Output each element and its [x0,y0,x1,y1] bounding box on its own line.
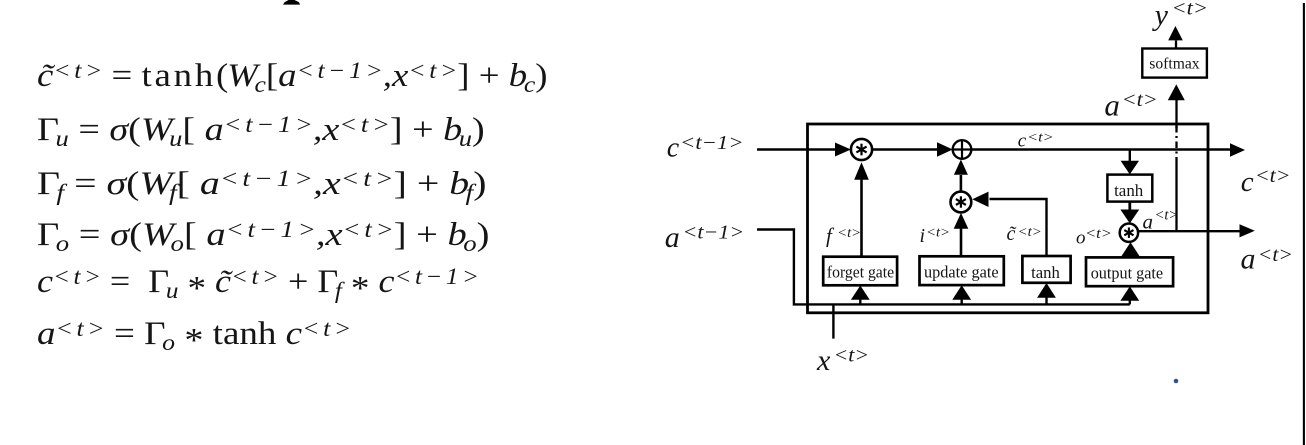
arrowhead c-out [1230,143,1245,156]
arrow softmax to y [1175,41,1177,49]
arrowhead into tanh upper [1121,161,1139,175]
softmax box [1142,49,1207,78]
wire vertical dash-dot crossing [1175,126,1177,164]
tanh box (bottom) [1022,256,1070,283]
wire a-out [1138,230,1239,232]
node multiply1 [851,139,872,160]
arrowhead up to softmax [1168,84,1185,100]
wire ctilde branch (tanh bottom up and left) [990,199,1047,256]
equation line 5 [37,265,479,299]
wire vertical to softmax (solid upper) [1175,100,1177,128]
arrow tanh to multiply3 [1128,202,1131,211]
equation line 6 [37,317,351,351]
arrow f-gate to multiply1 [860,179,863,257]
equation line 4 [37,219,489,252]
wire multiply1 to plus [872,148,938,150]
feed arrow into tanh bottom [1045,297,1047,304]
tanh box (upper) [1107,175,1152,202]
equation line 2 [37,114,485,147]
feed arrow into forget gate [859,299,861,304]
arrowhead into plus [937,142,953,156]
wire c-in [757,148,837,150]
arrow o-gate to multiply3 [1121,242,1140,257]
feed arrow into update gate [961,299,963,304]
node multiply3 [1120,224,1138,242]
equation line 1 [37,60,547,93]
wire branch down to tanh [1129,150,1131,162]
wire vertical to softmax (solid lower) [1175,164,1177,232]
forget gate box [823,257,897,286]
arrowhead c-in [835,143,851,157]
wire c-line [971,148,1231,150]
feed arrow into output gate [1129,300,1131,304]
node blue dot [1174,379,1179,384]
wire x-in [832,304,834,338]
arrow i-gate to multiply2 [960,228,963,256]
node plus [953,140,972,159]
output gate box [1086,257,1173,286]
slide right border [1303,3,1305,445]
wire a-feed (from a<t-1> around bottom) [757,230,1130,305]
arrowhead into multiply2 (pointing left) [972,192,988,207]
arrow multiply2 to plus [960,175,963,192]
node multiply2 [951,192,972,213]
equation line 3 [37,168,487,201]
LSTM cell outer box [808,124,1209,313]
arrowhead a-out [1240,224,1255,237]
update gate box [920,256,1004,285]
